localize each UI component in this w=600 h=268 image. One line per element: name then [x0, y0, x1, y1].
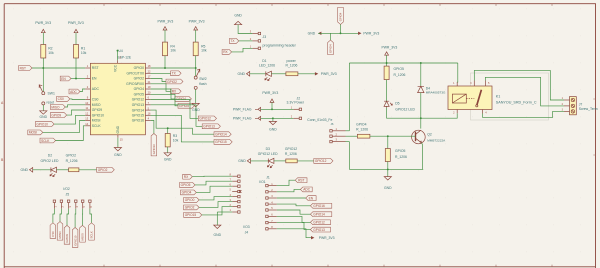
wire ADC net: [80, 89, 85, 92]
wire PWR to rail: [386, 55, 388, 63]
resistor GPIO12 R_1206: [286, 159, 297, 163]
IC U4 left pin MISO: [85, 104, 90, 106]
net flag GPIO15: [214, 140, 232, 145]
net flag CS0 vertical: [50, 223, 56, 239]
switch SW1 reset: [42, 92, 45, 95]
wire SW2 to ground: [195, 89, 197, 103]
net flag GPIO15 at J4: [184, 213, 202, 218]
wire J1 pin3: [277, 197, 306, 199]
svg-text:10k: 10k: [201, 49, 207, 53]
svg-text:D2: D2: [48, 153, 52, 157]
svg-text:GND: GND: [238, 159, 246, 163]
resistor R5: [193, 42, 198, 56]
net flag SCLK vertical: [89, 223, 95, 240]
node RST junction: [42, 67, 44, 69]
resistor power R_1206: [286, 72, 298, 76]
svg-text:GPIO0: GPIO0: [185, 198, 195, 202]
wire GPIO5 net: [151, 94, 178, 106]
wire relay common to J7 pin1: [474, 70, 564, 100]
net flag GPIO9 vertical: [64, 225, 70, 244]
resistor GPIO5 R_1206 pulldown: [385, 149, 390, 162]
wire TX net: [151, 72, 171, 74]
svg-text:GPIO16: GPIO16: [152, 144, 156, 155]
svg-text:GPIO14: GPIO14: [215, 132, 227, 136]
svg-text:GPIO10: GPIO10: [36, 122, 48, 126]
wire GPIO14 net: [151, 110, 214, 134]
svg-text:PWR_3V3: PWR_3V3: [68, 21, 84, 25]
svg-text:PWR_3V3: PWR_3V3: [319, 236, 335, 240]
svg-text:SCLK: SCLK: [90, 231, 94, 238]
wire J5 pin4 to GPIO10: [74, 209, 77, 228]
ground relay block: [384, 177, 391, 180]
wire GPIO10 net: [54, 115, 85, 124]
svg-text:programming header: programming header: [263, 43, 297, 47]
svg-text:GPIO4: GPIO4: [182, 191, 192, 195]
connector J7 pins: [564, 99, 570, 101]
power PWR_3V3 arrow at D1: [315, 72, 318, 75]
svg-text:U4: U4: [119, 49, 123, 53]
svg-text:GND: GND: [116, 125, 120, 133]
node R4 GPIO0 junction: [164, 67, 166, 69]
net flag MOSI: [28, 130, 43, 135]
svg-text:10k: 10k: [170, 49, 176, 53]
svg-text:GND: GND: [164, 158, 172, 162]
connector J6 pins: [330, 130, 332, 132]
svg-text:MISO: MISO: [92, 103, 101, 107]
wire GPIO13 net: [151, 105, 203, 127]
net flag ADC at J1: [300, 187, 312, 192]
wire J1 pin2: [277, 189, 301, 191]
no-connect J4 pin5: [239, 190, 242, 193]
svg-text:J4: J4: [245, 231, 249, 235]
IC U4 right pin GPIO14: [145, 109, 150, 111]
svg-text:CS0: CS0: [92, 98, 99, 102]
svg-text:3.3V Power: 3.3V Power: [287, 101, 305, 105]
node rail D4 junction: [420, 62, 422, 64]
svg-text:MMBT2222A: MMBT2222A: [427, 138, 446, 142]
net flag GPIO5: [178, 103, 194, 108]
svg-text:ADC: ADC: [70, 90, 77, 94]
svg-text:K1: K1: [496, 94, 501, 98]
node R5 GPIO0 junction: [195, 67, 197, 69]
svg-text:R_1206: R_1206: [395, 155, 407, 159]
LED D1: [266, 71, 272, 76]
svg-text:EN: EN: [309, 196, 314, 200]
power PWR_3V3 symbol R2: [41, 29, 45, 32]
ground under J2: [269, 121, 276, 124]
net flag GPIO16 vertical: [151, 134, 157, 156]
frame column ticks top: [104, 4, 552, 6]
connector J4 pins: [232, 175, 237, 177]
svg-text:GPIO13: GPIO13: [203, 125, 215, 129]
svg-text:PWR_3V3: PWR_3V3: [262, 91, 278, 95]
net flag GPIO2: [166, 79, 183, 84]
svg-text:GPIO15: GPIO15: [215, 140, 227, 144]
net flag GPIO10: [35, 122, 54, 127]
svg-text:GND: GND: [214, 233, 222, 237]
resistor GPIO2 R_1206: [69, 168, 79, 172]
svg-text:MISO: MISO: [58, 231, 62, 239]
wire PWR_FLAG2 to J2 pin2: [261, 117, 294, 119]
wire left rail lower: [348, 142, 350, 170]
svg-text:GPIO4: GPIO4: [134, 87, 144, 91]
wire R1 to EN net: [75, 58, 77, 79]
svg-text:EN: EN: [61, 77, 66, 81]
svg-text:PWR_3V3: PWR_3V3: [363, 31, 379, 35]
wire base R to Q2: [370, 135, 416, 137]
wire rail to ground: [387, 169, 389, 176]
wire J4 pin6: [196, 186, 232, 192]
wire GND to J3 pin3: [238, 25, 252, 34]
svg-text:J7: J7: [579, 102, 583, 106]
node coil- junction: [420, 117, 422, 119]
wire R3 to ground: [167, 147, 169, 153]
relay K1 coil: [452, 94, 466, 103]
svg-text:GPIO13: GPIO13: [313, 228, 325, 232]
svg-text:J3: J3: [263, 35, 267, 39]
svg-text:MRA4005T3G: MRA4005T3G: [426, 91, 446, 95]
svg-text:GPIO12: GPIO12: [313, 221, 325, 225]
svg-text:10k: 10k: [173, 138, 179, 142]
IC U4 right pin GPIO4: [145, 88, 150, 90]
IC U4 right pin GPIO13: [145, 104, 150, 106]
svg-text:J1: J1: [266, 176, 270, 180]
net flag EN: [60, 76, 71, 81]
net flag RX at J4: [183, 174, 193, 179]
svg-text:GND: GND: [269, 127, 277, 131]
net flag GPIO4 vertical upper: [338, 7, 344, 24]
net flag GPIO16 at J1: [310, 203, 331, 208]
ground under R3: [164, 153, 171, 156]
wire PWR to R2: [42, 33, 44, 45]
resistor R2: [41, 45, 46, 59]
wire GPIO12 net: [151, 100, 199, 119]
svg-text:LED_1206: LED_1206: [259, 64, 275, 68]
wire node to collector: [420, 118, 422, 128]
svg-text:SCLK: SCLK: [92, 124, 102, 128]
net flag GPIO9: [50, 113, 66, 118]
power PWR_3V3 symbol R5: [194, 27, 198, 30]
resistor R3: [165, 134, 170, 147]
node base junction: [387, 135, 389, 137]
wire relay NC to J7 pin3: [483, 111, 564, 117]
svg-text:ADC: ADC: [303, 188, 310, 192]
wire J4 pin7: [195, 181, 232, 185]
wire to ground J2: [272, 118, 274, 121]
wire rail to D4: [420, 63, 422, 86]
wire R to flag: [297, 160, 314, 162]
node PWR junction: [271, 108, 273, 110]
ground symbol above J3: [235, 21, 242, 24]
net flag GPIO5 at J4: [180, 183, 196, 188]
wire J6 pin1 to rail: [346, 130, 350, 132]
IC U4 right pin GPIO0: [145, 67, 150, 69]
svg-text:D3: D3: [266, 147, 270, 151]
wire down to ground J4: [216, 212, 218, 225]
wire coil- to relay: [421, 113, 457, 118]
svg-text:GPIO9: GPIO9: [92, 108, 102, 112]
wire J4 pin4: [199, 197, 232, 200]
connector J7 screw terminal body: [570, 97, 577, 115]
wire R4 to GPIO0 net: [164, 56, 166, 68]
wire GND to D2: [33, 169, 51, 171]
connector J3 programming header: [252, 33, 258, 35]
IC U4 left pin RST: [85, 67, 90, 69]
resistor GPIO5 R_1206 indicator: [384, 66, 389, 80]
svg-text:GPIO4: GPIO4: [356, 122, 366, 126]
wire R to PWR: [298, 73, 315, 75]
node rail R junction: [386, 62, 388, 64]
sheet box around relay: [471, 73, 549, 120]
svg-text:GPIO12: GPIO12: [315, 159, 327, 163]
svg-text:GPIO9: GPIO9: [51, 113, 61, 117]
wire D4 to coil node: [420, 93, 422, 119]
net flag SCLK: [40, 138, 56, 143]
svg-text:GPIO2: GPIO2: [167, 80, 177, 84]
wire J5 pin2 to MISO: [60, 209, 61, 222]
net flag TX: [171, 71, 182, 76]
svg-text:SANYOU_SRD_Form_C: SANYOU_SRD_Form_C: [496, 101, 537, 105]
wire D2 to R: [57, 169, 69, 171]
wire J5 pin6 to SCLK: [90, 209, 92, 223]
wire J1 pin5: [277, 210, 311, 214]
relay K1 pins: [457, 81, 485, 114]
IC U4 right pin GPIO2: [145, 78, 150, 80]
svg-text:GPIO4: GPIO4: [176, 97, 186, 101]
svg-text:CS0: CS0: [51, 231, 55, 237]
svg-text:GPIO3/RX0: GPIO3/RX0: [126, 82, 144, 86]
LED D5: [384, 101, 389, 107]
wire J4 pin3: [199, 202, 232, 208]
power PWR_3V3 arrow at J1: [311, 236, 314, 239]
IC U4 left pin ADC: [85, 88, 90, 90]
net flag MISO vertical: [57, 222, 63, 241]
wire relay NO to J7 pin2: [485, 77, 564, 106]
svg-text:GND: GND: [114, 153, 122, 157]
wire MOSI net: [43, 121, 85, 133]
svg-text:GPIO12: GPIO12: [132, 98, 144, 102]
power PWR_3V3 symbol R4: [163, 27, 167, 30]
svg-text:GPIO2: GPIO2: [66, 153, 76, 157]
svg-text:GPIO5: GPIO5: [395, 149, 405, 153]
diode D4 MRA4005T3G: [418, 86, 424, 92]
wire MISO net: [65, 105, 85, 107]
IC U4 ESP-12E body: [90, 63, 145, 135]
resistor R1: [74, 45, 79, 59]
wire RST net: [32, 67, 85, 69]
svg-text:I/O2: I/O2: [63, 187, 70, 191]
node VCC end: [117, 50, 119, 52]
wire pulldown to rail: [387, 162, 389, 170]
svg-text:GPIO2: GPIO2: [98, 168, 108, 172]
IC U4 left pin MOSI: [85, 120, 90, 122]
wire GPIO16 net: [151, 121, 154, 134]
IC U4 top pin VCC: [117, 60, 119, 63]
wire R2 to RST net: [42, 58, 44, 68]
svg-text:R_1206: R_1206: [66, 159, 78, 163]
wire D1 to R: [271, 73, 286, 75]
connector J2 3.3V power: [293, 108, 299, 110]
wire J5 pin1 to CS0: [53, 209, 55, 223]
wire left rail upper: [348, 63, 350, 131]
power PWR_3V3 symbol R1: [74, 29, 78, 32]
net flag GPIO4 at J4: [181, 190, 197, 195]
svg-text:I/O3: I/O3: [243, 225, 250, 229]
svg-text:R_1206: R_1206: [286, 64, 298, 68]
svg-text:GPIO4: GPIO4: [329, 44, 333, 53]
svg-text:Screw_Term: Screw_Term: [579, 107, 598, 111]
svg-text:Q2: Q2: [427, 133, 432, 137]
svg-text:CS0: CS0: [58, 97, 64, 101]
IC U4 right pin GPIO5: [145, 93, 150, 95]
wire to upper GPIO4 flag: [340, 24, 342, 33]
transistor Q2 MMBT2222A: [412, 130, 426, 144]
wire GND to D3: [251, 160, 269, 162]
svg-text:RST: RST: [92, 66, 99, 70]
svg-text:RST: RST: [20, 66, 26, 70]
svg-text:SCLK: SCLK: [41, 139, 50, 143]
IC U4 left pin GPIO9: [85, 109, 90, 111]
wire R5 to SW2: [195, 56, 197, 77]
resistor GPIO4 R_1206 base: [357, 134, 370, 138]
svg-text:SW2: SW2: [199, 77, 206, 81]
svg-text:flash: flash: [199, 82, 206, 86]
node EN junction: [75, 78, 77, 80]
ground at J4: [214, 225, 221, 228]
svg-text:R_1206: R_1206: [285, 152, 297, 156]
wire VCC stub: [117, 50, 119, 60]
net flag GPIO12 at J1: [310, 220, 330, 225]
svg-text:GPIO12 LED: GPIO12 LED: [258, 152, 278, 156]
wire D3 to R: [274, 160, 286, 162]
net flag GPIO13 at J1: [310, 227, 330, 232]
svg-text:R_1206: R_1206: [394, 73, 406, 77]
switch SW2 flash: [194, 76, 197, 79]
wire J4 pin8: [192, 175, 232, 178]
ground at D1: [247, 72, 250, 77]
wire RX to J3 pin1: [232, 48, 253, 52]
svg-text:PWR_3V3: PWR_3V3: [189, 19, 205, 23]
frame column ticks bottom: [104, 265, 552, 267]
svg-text:Conn_01x03_Fe: Conn_01x03_Fe: [307, 118, 332, 122]
IC U4 right pin GPIO1/TX0: [145, 72, 150, 74]
node GND junction at J2: [272, 117, 274, 119]
svg-text:PWR_FLAG: PWR_FLAG: [233, 107, 252, 111]
relay K1 body: [448, 86, 492, 110]
wire R to flag: [79, 169, 97, 171]
svg-text:GPIO10: GPIO10: [73, 235, 77, 246]
svg-text:GPIO0: GPIO0: [134, 66, 144, 70]
wire rail to coil+: [456, 63, 459, 82]
LED D3: [268, 158, 274, 163]
svg-text:GPIO2: GPIO2: [185, 206, 195, 210]
wire RX net: [151, 84, 171, 92]
net flag GPIO2 at J4: [184, 205, 200, 210]
svg-text:GPIO16: GPIO16: [132, 119, 144, 123]
wire SW1 to ground: [42, 105, 44, 111]
wire J5 pin3 to GPIO9: [67, 209, 69, 226]
wire PWR to R1: [75, 33, 77, 45]
net flag ADC: [69, 89, 80, 94]
net flag MISO: [50, 105, 65, 110]
wire J1 pin1: [277, 180, 295, 185]
wire D5 to coil node: [387, 108, 421, 119]
wire J4 pin2: [202, 207, 232, 215]
wire emitter to bottom rail: [421, 143, 424, 170]
wire J1 pin6: [277, 216, 311, 222]
IC U4 right pin GPIO15: [145, 114, 150, 116]
svg-text:R_1206: R_1206: [356, 128, 368, 132]
svg-text:GPIO12 LED: GPIO12 LED: [395, 108, 415, 112]
svg-text:GPIO5: GPIO5: [394, 67, 404, 71]
net flag TX at J3: [229, 39, 239, 44]
svg-text:MISO: MISO: [51, 105, 60, 109]
net flag GPIO4 vertical lower: [328, 40, 334, 55]
wire EN net: [71, 78, 85, 80]
wire GND to D1: [250, 73, 266, 75]
svg-text:MOSI: MOSI: [81, 233, 85, 240]
svg-text:SW1: SW1: [48, 92, 55, 96]
svg-text:GPIO5: GPIO5: [181, 183, 191, 187]
svg-text:GPIO14: GPIO14: [313, 212, 325, 216]
IC U4 left pin SCLK: [85, 125, 90, 127]
wire R to D5: [386, 80, 388, 102]
svg-text:EN: EN: [92, 77, 97, 81]
node jumper junction: [340, 32, 342, 34]
svg-text:GND: GND: [234, 14, 242, 18]
net flag RX at J3: [222, 50, 232, 55]
ground under U4: [114, 148, 121, 151]
power PWR_3V3 symbol J2: [270, 99, 274, 102]
net flag GPIO14: [214, 132, 231, 137]
svg-text:PWR_3V3: PWR_3V3: [157, 19, 173, 23]
power PWR_3V3 arrow jumper: [358, 32, 361, 35]
wire base to pulldown: [387, 136, 389, 148]
ground at D3: [247, 159, 250, 164]
node R3 junction: [167, 127, 169, 129]
svg-text:power: power: [287, 59, 297, 63]
svg-text:RST: RST: [298, 178, 304, 182]
svg-text:GPIO14: GPIO14: [132, 108, 144, 112]
power PWR_3V3 symbol relay: [385, 52, 389, 55]
svg-text:GPIO1/TX0: GPIO1/TX0: [126, 72, 144, 76]
wire RST to SW1: [42, 68, 44, 92]
net flag GPIO12 at D3: [314, 159, 333, 164]
wire J6 pin3 to rail: [346, 141, 350, 143]
svg-text:D5: D5: [395, 102, 399, 106]
svg-text:ADC: ADC: [92, 87, 100, 91]
wire jumper: [318, 32, 358, 34]
connector J5 pins: [53, 200, 55, 202]
wire TX to J3 pin2: [239, 40, 253, 42]
svg-text:10k: 10k: [48, 51, 54, 55]
net flag GPIO0 at J4: [184, 198, 200, 203]
svg-text:GPIO15: GPIO15: [132, 114, 144, 118]
svg-text:D1: D1: [262, 59, 266, 63]
svg-text:GPIO12: GPIO12: [199, 117, 211, 121]
wire J1 pin8 to PWR: [277, 229, 311, 238]
connector J1 pins: [266, 184, 268, 186]
wire PWR to R4: [164, 30, 166, 42]
wire rail to R chain: [386, 63, 388, 66]
wire conn pin2 to base R: [346, 135, 358, 137]
svg-text:GPIO9: GPIO9: [65, 234, 69, 243]
svg-text:PWR_FLAG: PWR_FLAG: [233, 116, 252, 120]
svg-text:J5: J5: [66, 193, 70, 197]
wire bottom rail: [349, 168, 423, 170]
ground under SW2: [192, 103, 199, 106]
svg-text:GPIO15: GPIO15: [185, 213, 197, 217]
